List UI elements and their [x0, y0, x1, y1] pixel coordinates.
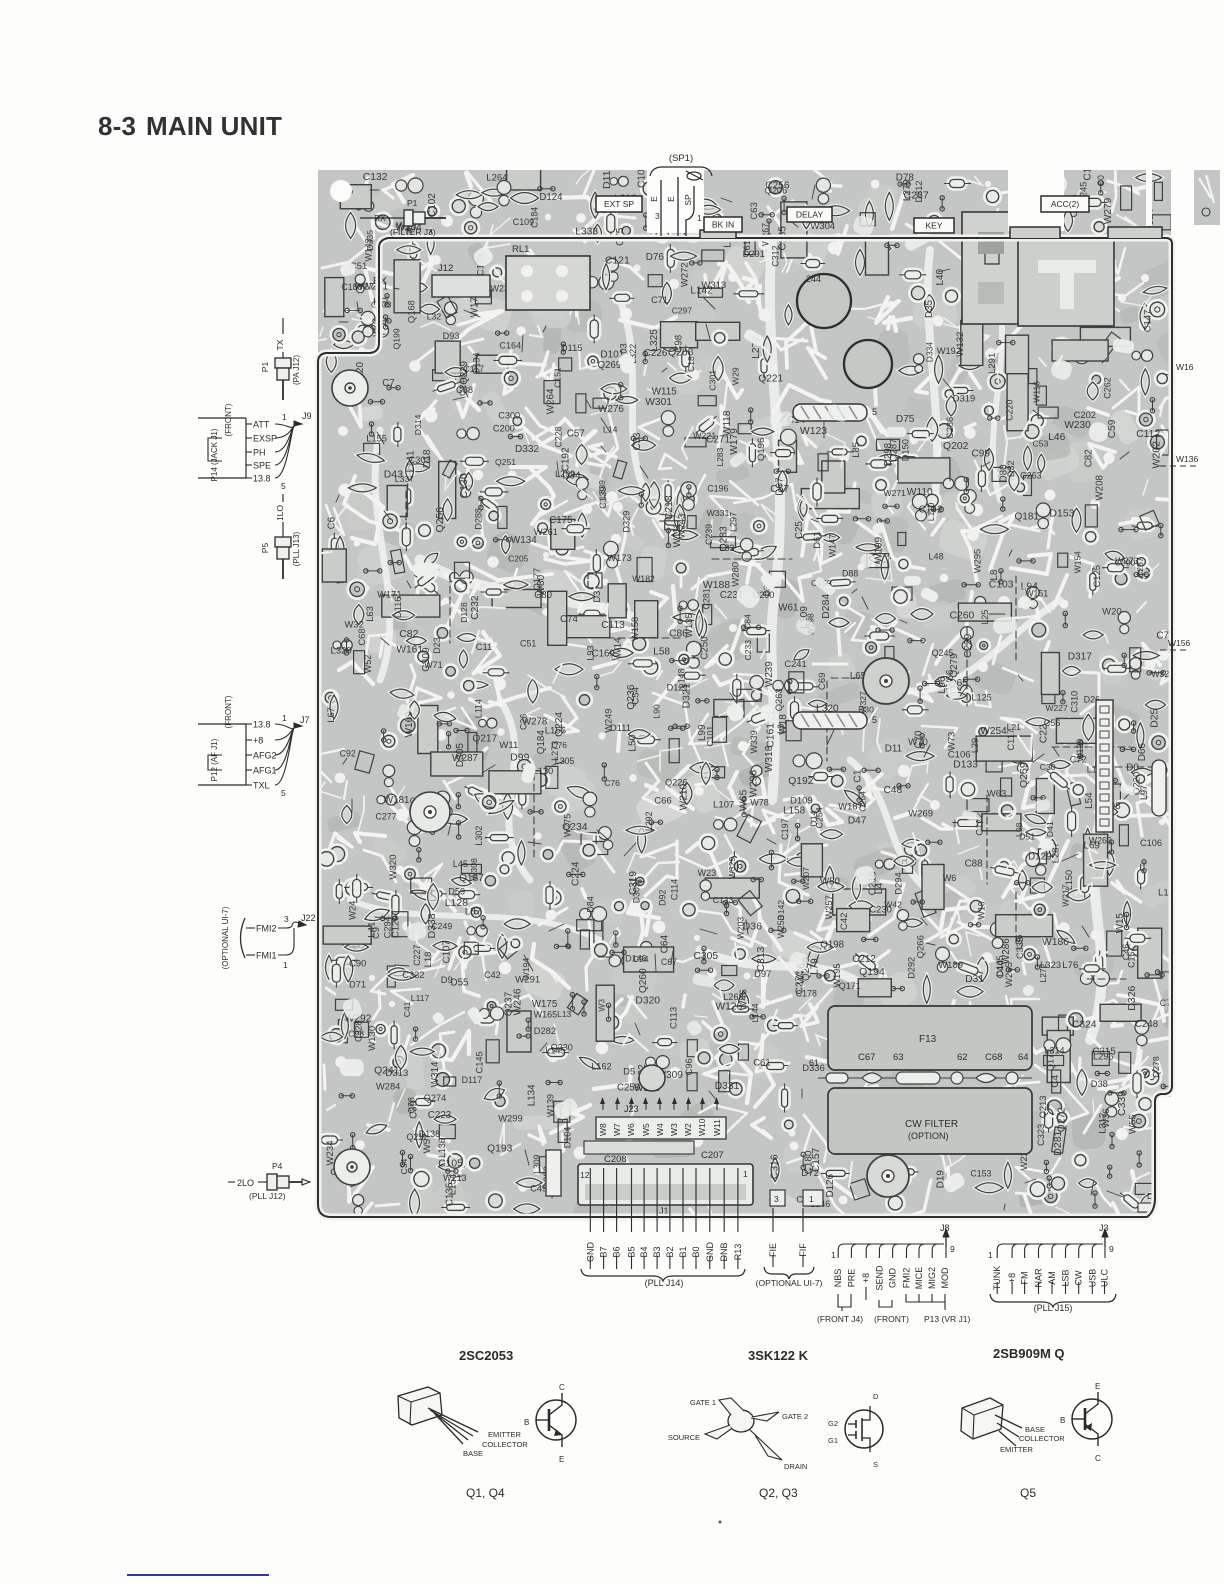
wire — [958, 846, 979, 854]
label W165 — [534, 1010, 558, 1020]
capacitor Q167 — [713, 357, 723, 381]
wire — [1007, 238, 1026, 254]
component C110 — [818, 454, 828, 471]
transistor/pad C28 — [968, 898, 984, 914]
svg-text:C151: C151 — [553, 367, 563, 388]
wire — [938, 269, 950, 272]
transistor/pad L56 — [641, 179, 660, 198]
svg-text:W7: W7 — [612, 1123, 622, 1136]
resistor C79 — [1103, 663, 1131, 674]
wire — [458, 385, 474, 417]
wire — [785, 871, 819, 875]
svg-text:B3: B3 — [652, 1246, 662, 1257]
resistor D130 — [1136, 865, 1147, 889]
wire — [683, 995, 685, 1007]
label C96 — [684, 1058, 694, 1075]
label C129 — [390, 915, 401, 938]
component D171 — [786, 721, 801, 741]
capacitor W13 — [390, 688, 415, 700]
junction — [538, 187, 555, 191]
capacitor Q121 — [1026, 829, 1046, 836]
wire — [483, 218, 510, 250]
capacitor L170 — [504, 581, 528, 589]
label C273 — [795, 970, 806, 995]
svg-text:C262: C262 — [1103, 377, 1113, 399]
wire — [350, 1035, 375, 1042]
component Q112 — [1140, 510, 1160, 530]
wire — [830, 790, 874, 810]
junction — [534, 832, 541, 839]
wire — [578, 487, 593, 499]
junction — [387, 386, 400, 390]
transistor/pad W317 — [449, 278, 463, 292]
svg-text:L134: L134 — [527, 1084, 538, 1106]
component L172 — [355, 751, 375, 773]
wire — [770, 808, 799, 819]
junction — [696, 699, 709, 703]
capacitor C140 — [576, 444, 587, 464]
wire — [721, 384, 727, 422]
label C117 — [1005, 729, 1016, 751]
label C260 — [950, 611, 975, 622]
wire — [957, 349, 967, 372]
wire — [801, 1004, 818, 1026]
junction — [1099, 181, 1103, 195]
transistor/pad D135 — [602, 385, 619, 402]
svg-text:63: 63 — [893, 1052, 904, 1063]
wire — [614, 262, 643, 279]
label C212 — [852, 954, 876, 965]
capacitor Q94 — [662, 341, 680, 351]
resistor L206 — [588, 315, 600, 343]
label W253 — [776, 915, 786, 938]
svg-text:D23: D23 — [432, 637, 442, 654]
wire — [1053, 575, 1067, 608]
capacitor W9 — [511, 193, 539, 204]
component Q153 — [1119, 1052, 1131, 1073]
svg-text:W243: W243 — [677, 514, 688, 539]
label L267 — [886, 1164, 896, 1184]
wire — [447, 596, 461, 628]
label L296 — [1093, 1051, 1114, 1061]
junction — [447, 1174, 459, 1186]
label W192 — [937, 346, 961, 356]
wire — [925, 928, 949, 942]
junction — [1058, 922, 1069, 933]
wire — [677, 475, 705, 508]
svg-text:D115: D115 — [561, 342, 583, 353]
svg-text:(OPTIONAL UI-7): (OPTIONAL UI-7) — [756, 1278, 823, 1288]
capacitor D230 — [1050, 761, 1070, 769]
IC Q163 — [431, 752, 483, 776]
junction — [516, 326, 525, 335]
resistor D197 — [680, 346, 692, 372]
capacitor L183 — [821, 830, 843, 839]
junction — [1159, 819, 1165, 825]
label C228 — [554, 426, 564, 447]
label W110 — [907, 487, 933, 498]
label W287 — [452, 753, 479, 764]
wire — [812, 185, 815, 199]
wire — [824, 1147, 827, 1162]
wire — [551, 1105, 590, 1133]
svg-text:D317: D317 — [1068, 652, 1093, 663]
wire — [360, 178, 368, 205]
junction — [658, 520, 665, 527]
wire — [819, 1176, 847, 1217]
wire — [401, 873, 433, 893]
svg-text:C332: C332 — [402, 970, 424, 980]
junction — [999, 569, 1003, 584]
wire — [1025, 1179, 1036, 1183]
capacitor L219 — [763, 336, 771, 362]
junction — [997, 340, 1015, 344]
junction — [1001, 497, 1005, 511]
wire — [895, 811, 917, 818]
coil C172 — [497, 181, 511, 206]
transistor/pad L91 — [536, 521, 550, 535]
svg-text:(SP1): (SP1) — [669, 153, 693, 164]
svg-text:W320: W320 — [388, 855, 399, 880]
label D305 — [455, 743, 466, 768]
capacitor D252 — [981, 525, 1009, 534]
PCB photo region — [318, 170, 1171, 1215]
svg-text:W5: W5 — [641, 1123, 651, 1136]
label D336 — [802, 1062, 824, 1073]
capacitor L256 — [433, 711, 456, 723]
svg-text:P12 (AF J1): P12 (AF J1) — [210, 738, 219, 781]
svg-text:W239: W239 — [764, 661, 775, 687]
wire — [640, 466, 648, 478]
coil C77 — [433, 789, 455, 819]
junction — [614, 931, 618, 947]
junction — [690, 261, 702, 265]
wire — [1004, 811, 1016, 818]
capacitor L233 — [363, 906, 391, 924]
svg-text:L61: L61 — [742, 240, 752, 255]
label D317 — [1068, 652, 1093, 663]
wire — [381, 638, 389, 645]
svg-text:L13: L13 — [557, 1009, 571, 1019]
junction — [510, 846, 520, 856]
label W269 — [908, 808, 933, 819]
label C161 — [765, 723, 776, 748]
wire — [528, 675, 565, 697]
junction — [425, 410, 438, 423]
component D64 — [336, 999, 353, 1010]
transistor/pad C106 — [429, 1042, 447, 1060]
capacitor W330 — [856, 249, 865, 275]
wire — [465, 922, 516, 954]
coil D169 — [1080, 970, 1109, 986]
label Q181 — [1015, 511, 1040, 522]
wire — [384, 511, 391, 520]
wire — [1112, 881, 1141, 902]
wire — [669, 586, 676, 631]
capacitor C243 — [421, 904, 430, 924]
coil W313 — [961, 627, 974, 651]
junction — [723, 901, 737, 905]
junction — [1160, 630, 1168, 638]
junction — [543, 552, 549, 558]
coil D110 — [687, 641, 702, 668]
wire — [1032, 511, 1053, 548]
transistor/pad C158 — [444, 664, 458, 678]
wire — [1016, 841, 1068, 901]
IC C325 — [507, 1011, 531, 1052]
component C124 — [1058, 553, 1068, 567]
junction — [773, 571, 783, 581]
svg-text:W18: W18 — [778, 714, 789, 735]
junction — [415, 638, 421, 644]
svg-text:D80: D80 — [999, 464, 1010, 483]
label W264 — [546, 388, 557, 414]
wire — [906, 1104, 912, 1123]
resistor W215 — [900, 269, 926, 281]
transistor/pad Q42 — [1125, 934, 1143, 952]
svg-text:Q206: Q206 — [765, 186, 787, 196]
junction — [1124, 912, 1128, 929]
coil W260 — [610, 176, 628, 186]
svg-text:Q2, Q3: Q2, Q3 — [759, 1486, 798, 1500]
svg-text:(PLL J15): (PLL J15) — [1034, 1303, 1073, 1313]
component Q125 — [1108, 784, 1120, 807]
capacitor Q27 — [739, 991, 749, 1013]
capacitor W87 — [503, 793, 513, 819]
transistor/pad C11 — [677, 652, 691, 666]
capacitor W155 — [985, 448, 994, 470]
component L166 — [915, 889, 936, 917]
coil C139 — [353, 1195, 364, 1215]
wire — [951, 327, 968, 385]
transistor/pad W67 — [909, 284, 927, 302]
svg-text:BASE: BASE — [463, 1449, 483, 1458]
resistor C267 — [773, 1021, 797, 1031]
wire — [746, 920, 748, 934]
component C198 — [702, 250, 724, 261]
svg-text:Q251: Q251 — [495, 457, 516, 467]
svg-text:C53: C53 — [1033, 439, 1049, 449]
junction — [494, 538, 511, 542]
wire — [1032, 849, 1044, 862]
IC C276 — [394, 260, 420, 313]
junction — [1118, 294, 1126, 302]
coil L225 — [361, 311, 375, 337]
label L279 — [902, 179, 913, 201]
IC L162 — [661, 322, 698, 348]
resistor W233 — [945, 178, 971, 190]
component C218 — [593, 398, 608, 408]
svg-text:P1: P1 — [260, 362, 270, 373]
transistor/pad C223 — [1117, 717, 1132, 732]
wire — [823, 226, 847, 254]
wire — [741, 814, 774, 826]
svg-text:W173: W173 — [607, 553, 632, 564]
capacitor Q52 — [459, 650, 467, 668]
label C121 — [605, 255, 630, 266]
svg-text:C319: C319 — [628, 871, 639, 895]
svg-text:L144: L144 — [750, 1003, 760, 1022]
IC W26 — [696, 322, 740, 340]
wire — [499, 935, 513, 941]
wire — [922, 726, 957, 748]
junction — [877, 519, 889, 523]
wire — [712, 781, 735, 804]
svg-text:FIF: FIF — [798, 1243, 808, 1257]
wire — [754, 899, 781, 950]
label W143 — [364, 238, 374, 261]
junction — [922, 681, 939, 685]
transistor/pad C37 — [374, 1022, 388, 1036]
wire — [926, 943, 935, 945]
coil D145 — [457, 427, 480, 439]
junction — [1137, 1151, 1141, 1167]
component D81 — [343, 930, 359, 947]
svg-text:D294: D294 — [892, 872, 903, 894]
wire — [713, 990, 723, 1001]
wire — [991, 1082, 1039, 1093]
wire — [600, 662, 621, 676]
component W190 — [559, 358, 572, 371]
wire — [524, 428, 571, 456]
wire — [355, 1203, 372, 1255]
wire — [352, 315, 376, 323]
svg-text:C30: C30 — [1040, 762, 1056, 772]
IC Q39 — [1056, 718, 1110, 743]
svg-text:P4: P4 — [272, 1161, 283, 1171]
capacitor C2 — [818, 882, 844, 892]
svg-text:D88: D88 — [842, 569, 858, 579]
transistor/pad C33 — [592, 942, 609, 959]
wire — [607, 999, 622, 1014]
junction — [402, 921, 412, 931]
svg-text:L150: L150 — [1064, 870, 1074, 890]
capacitor L36 — [1105, 851, 1114, 875]
capacitor C291 — [697, 205, 721, 214]
wire — [618, 513, 634, 527]
label W139 — [545, 1094, 555, 1117]
transistor/pad L28 — [532, 771, 550, 789]
svg-text:Q272: Q272 — [1056, 1107, 1067, 1132]
wire — [875, 386, 876, 405]
junction — [967, 529, 979, 541]
wire — [458, 465, 469, 481]
junction — [1155, 970, 1172, 974]
junction — [1134, 572, 1148, 576]
transistor/pad W158 — [554, 541, 571, 558]
wire — [794, 989, 832, 1016]
wire — [869, 881, 904, 936]
component C183 — [877, 439, 900, 450]
resistor Q41 — [481, 587, 507, 597]
wire — [1013, 772, 1029, 788]
svg-text:L67: L67 — [326, 707, 336, 722]
junction — [508, 434, 522, 438]
transistor/pad W297 — [381, 512, 400, 531]
junction — [629, 902, 641, 914]
IC D136 — [1047, 1031, 1070, 1083]
junction — [1067, 1065, 1075, 1073]
resistor C9 — [1079, 963, 1105, 974]
capacitor Q78 — [421, 550, 440, 568]
svg-text:(PA J12): (PA J12) — [292, 355, 301, 385]
svg-text:C99: C99 — [972, 449, 991, 460]
label D43 — [384, 470, 403, 481]
svg-text:E: E — [1095, 1382, 1100, 1391]
label C51 — [350, 260, 367, 271]
svg-text:W116: W116 — [1031, 381, 1041, 403]
label L1 — [723, 236, 734, 248]
wire — [715, 605, 727, 619]
junction — [345, 308, 362, 312]
junction — [931, 507, 943, 511]
wire — [702, 417, 723, 427]
label W158 — [630, 617, 640, 641]
capacitor D269 — [578, 1054, 602, 1072]
svg-text:C192: C192 — [560, 447, 571, 471]
wire — [1088, 847, 1097, 868]
junction — [643, 351, 647, 363]
wire — [1004, 426, 1007, 467]
svg-text:L93: L93 — [586, 645, 596, 661]
wire — [467, 172, 491, 201]
svg-text:D78: D78 — [896, 173, 915, 184]
wire — [609, 1185, 613, 1206]
svg-text:W276: W276 — [598, 404, 624, 415]
label C72 — [1070, 754, 1087, 764]
wire — [890, 672, 909, 701]
label C103 — [989, 580, 1014, 591]
junction — [533, 1165, 542, 1174]
svg-text:W339: W339 — [749, 730, 759, 753]
label W254 — [980, 726, 1007, 737]
svg-text:W299: W299 — [498, 1113, 523, 1124]
svg-text:EMITTER: EMITTER — [1000, 1445, 1033, 1454]
wire — [1065, 719, 1069, 743]
wire — [454, 954, 466, 970]
transistor/pad C330 — [978, 639, 990, 651]
wire — [714, 676, 731, 685]
junction — [867, 410, 876, 419]
junction — [1131, 721, 1135, 733]
IC Q124 — [714, 700, 744, 717]
wire — [1098, 1000, 1137, 1027]
junction — [968, 923, 980, 927]
wire — [646, 906, 651, 935]
junction — [558, 1104, 562, 1122]
wire — [780, 413, 787, 422]
svg-text:L45: L45 — [453, 859, 468, 869]
wire — [866, 557, 892, 581]
junction — [749, 408, 753, 424]
wire — [1096, 971, 1122, 984]
IC C18 — [551, 519, 575, 549]
wire — [655, 954, 656, 971]
label L33 — [720, 543, 735, 553]
component D88 — [860, 213, 875, 226]
junction — [1093, 1191, 1097, 1208]
wire — [729, 772, 737, 788]
label Q199 — [391, 328, 401, 349]
label W227 — [1046, 703, 1068, 713]
wire — [567, 825, 599, 835]
resistor L161 — [739, 546, 764, 560]
label W169 — [404, 711, 415, 738]
resistor W168 — [734, 289, 764, 299]
svg-text:Q234: Q234 — [562, 822, 588, 833]
capacitor Q86 — [397, 246, 421, 254]
component C316 — [685, 438, 706, 447]
